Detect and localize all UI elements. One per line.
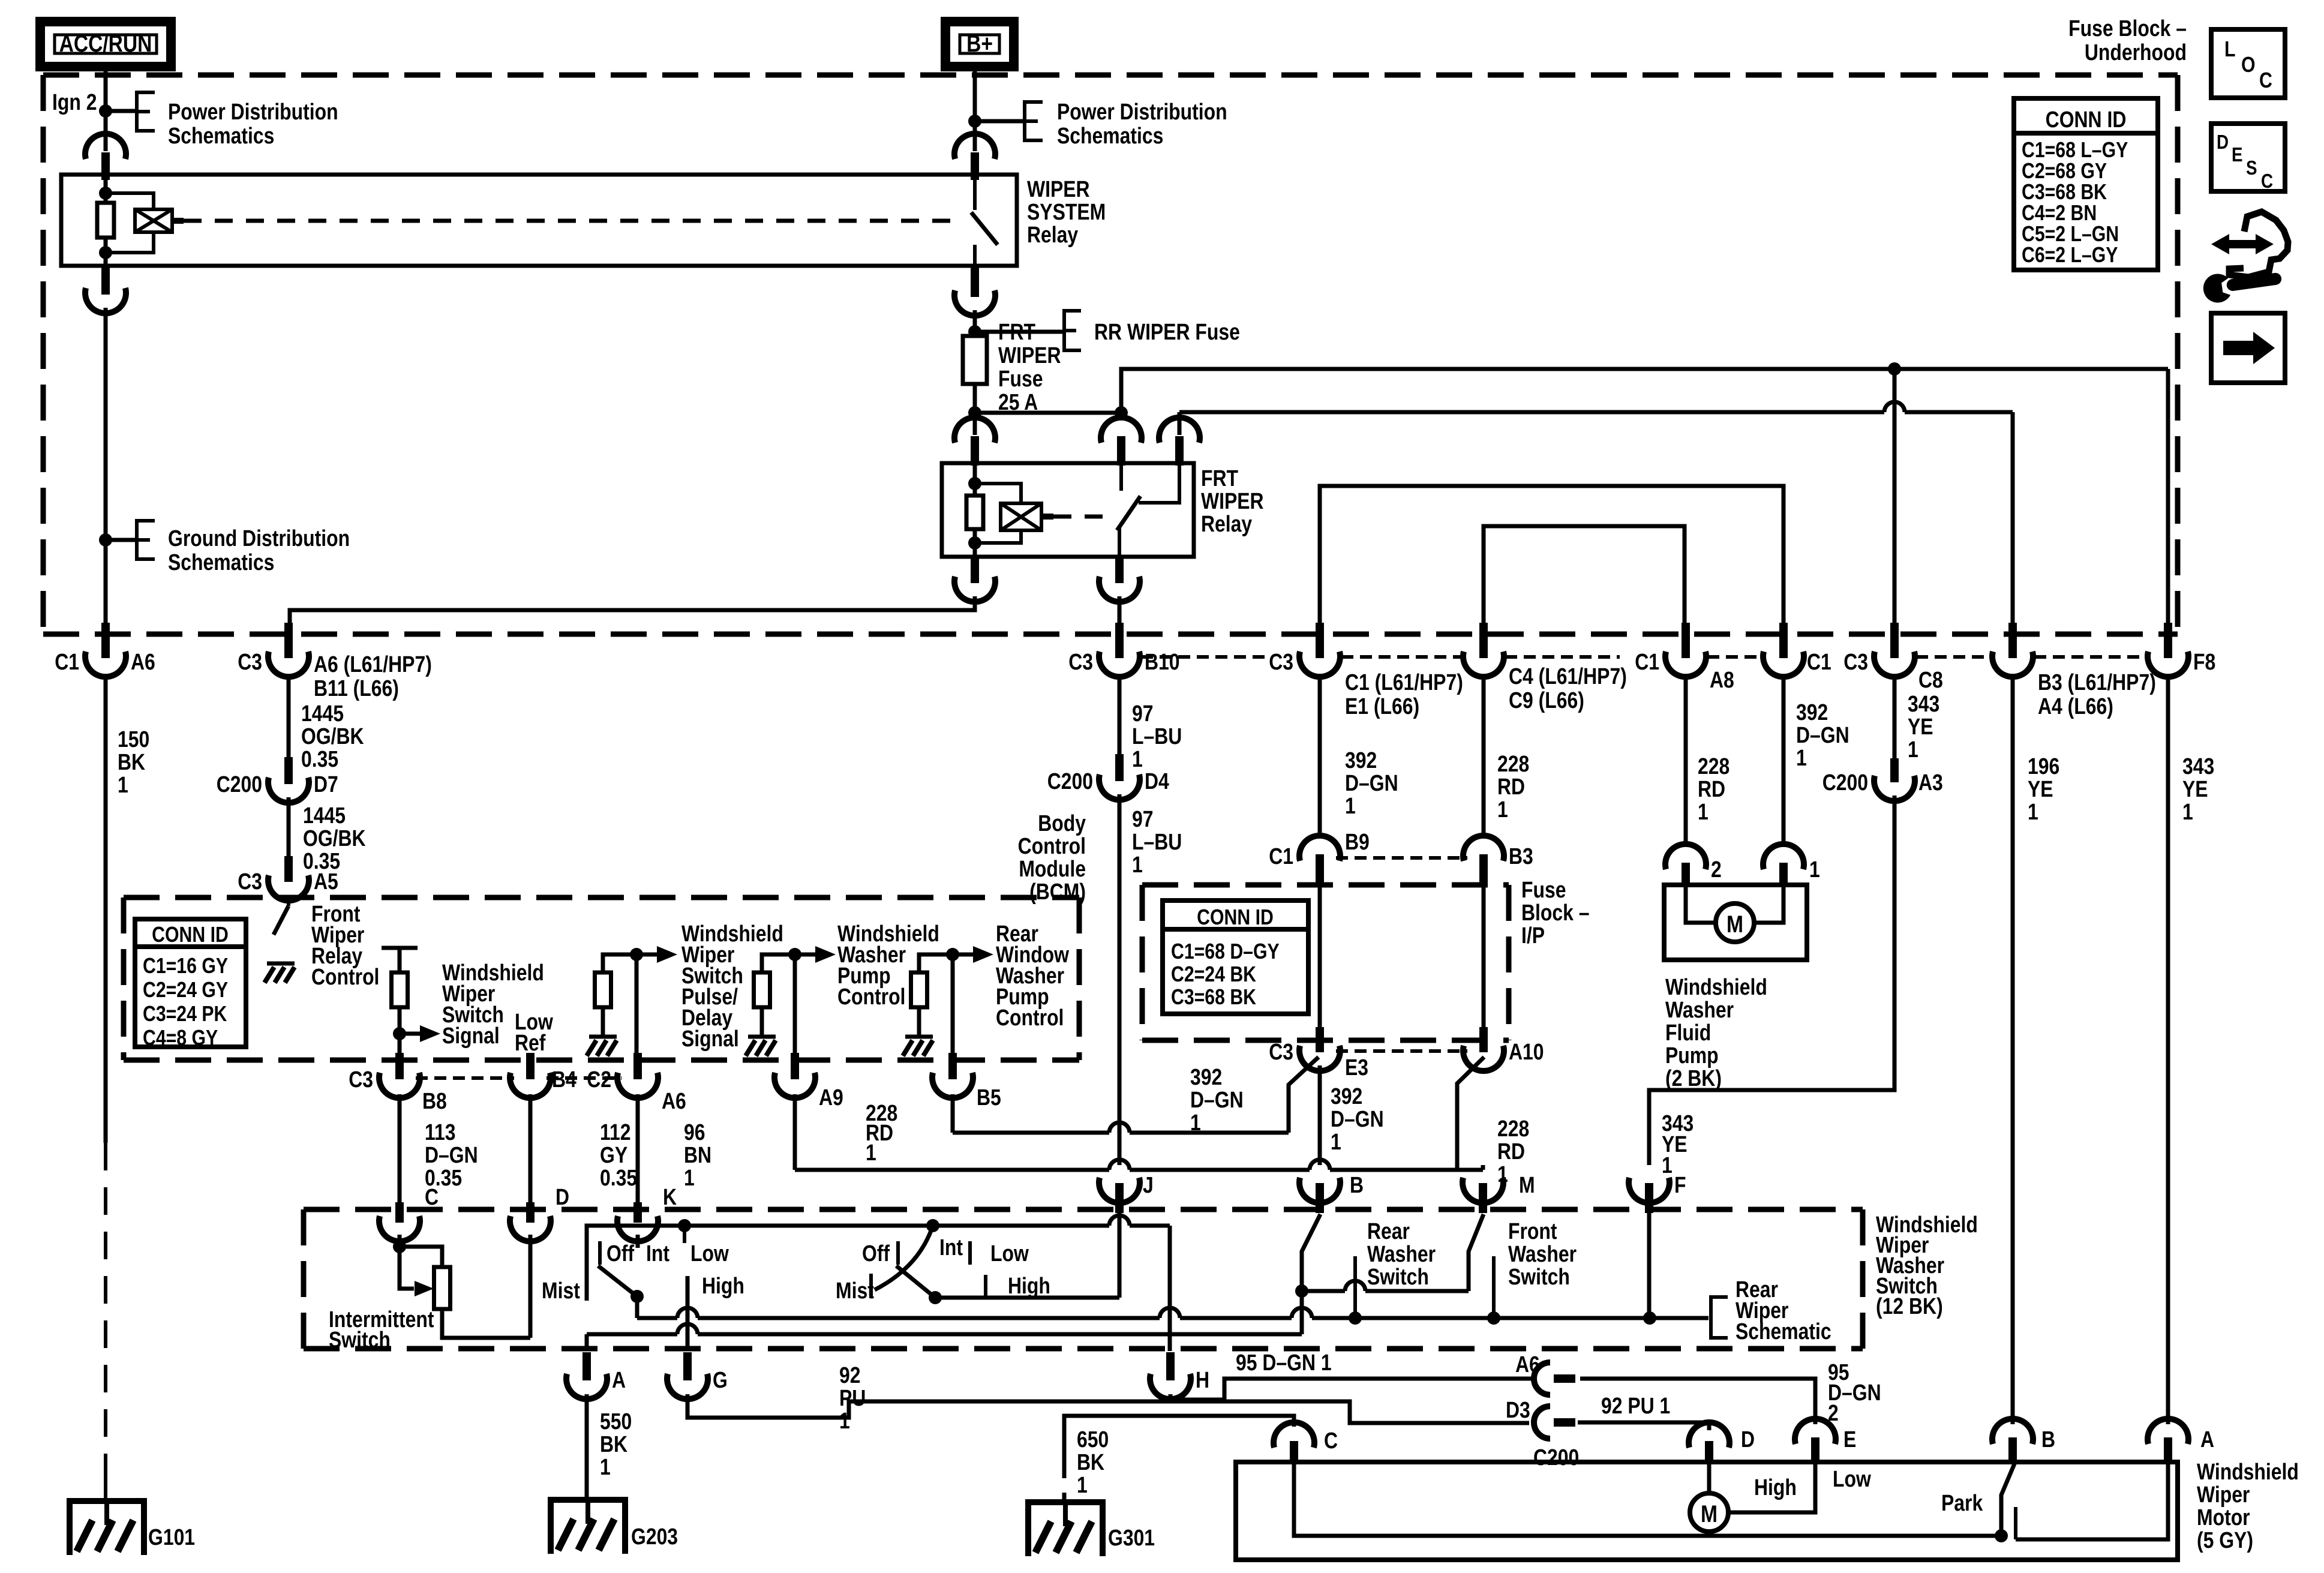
svg-text:C3: C3	[1068, 649, 1093, 674]
wire 97 L-BU lower to pin J	[1118, 794, 1122, 1165]
svg-text:A8: A8	[1710, 667, 1734, 692]
svg-text:Control: Control	[311, 964, 379, 989]
svg-text:D3: D3	[1506, 1397, 1530, 1422]
wire 95 D-GN 2 to motor E	[1580, 1379, 1815, 1424]
wire 392 D-GN B5 bus to E3	[951, 1094, 955, 1133]
svg-text:Relay: Relay	[1027, 222, 1079, 247]
svg-text:E3: E3	[1345, 1055, 1368, 1080]
ground G301	[1063, 1500, 1068, 1526]
svg-text:550: 550	[600, 1409, 632, 1434]
wire 650 BK 1 from motor C to G301	[1064, 1416, 1294, 1478]
connector pin Ign2 into relay	[101, 152, 110, 180]
svg-text:YE: YE	[2182, 776, 2208, 801]
svg-text:Int: Int	[646, 1241, 669, 1266]
svg-text:G101: G101	[148, 1524, 195, 1550]
svg-text:(5 GY): (5 GY)	[2197, 1527, 2253, 1553]
bus A pivot bus across switch	[637, 1316, 677, 1320]
windshield wiper washer switch dashed box	[304, 1207, 1863, 1212]
svg-text:C2: C2	[587, 1067, 611, 1092]
wire fuse output bus	[975, 411, 1121, 415]
wire F riser inside switch	[1647, 1213, 1652, 1318]
junction dot B+ node	[968, 115, 981, 128]
wire 550 BK 1 to G203	[585, 1394, 589, 1497]
junction dot relay coil bottom	[99, 246, 112, 259]
svg-text:C1 (L61/HP7): C1 (L61/HP7)	[1345, 670, 1463, 695]
svg-text:M: M	[1701, 1500, 1718, 1527]
pin A (wiper motor)	[2164, 1437, 2172, 1464]
junction dot rear washer contact on bus A	[1349, 1311, 1362, 1325]
svg-text:112: 112	[600, 1119, 630, 1145]
svg-text:L: L	[2224, 38, 2235, 62]
svg-text:C3: C3	[1269, 649, 1293, 674]
svg-text:WIPER: WIPER	[1027, 176, 1090, 202]
svg-text:D–GN: D–GN	[425, 1142, 478, 1167]
reference bracket Power Distribution Schematics (B+)	[1025, 102, 1043, 121]
svg-text:92: 92	[839, 1362, 861, 1388]
svg-text:1: 1	[684, 1165, 695, 1190]
wire 228 through fuse block I/P	[1482, 887, 1486, 1028]
svg-text:(2 BK): (2 BK)	[1665, 1065, 1722, 1091]
svg-text:A6: A6	[1515, 1352, 1540, 1377]
svg-text:C3: C3	[349, 1067, 373, 1092]
junction dot relay coil top	[99, 187, 112, 200]
svg-text:C200: C200	[1533, 1445, 1579, 1470]
svg-text:1: 1	[600, 1454, 611, 1479]
wire 228 RD C4 to fuse block I/P B3	[1482, 674, 1486, 837]
svg-text:(12 BK): (12 BK)	[1876, 1293, 1943, 1319]
connector C200/A3	[1890, 758, 1899, 782]
rear washer contact stub	[1353, 1256, 1357, 1318]
pin C2/A6	[633, 1053, 642, 1079]
svg-text:C200: C200	[1822, 770, 1868, 795]
svg-text:Control: Control	[837, 984, 905, 1009]
pin E (wiper motor)	[1811, 1437, 1819, 1464]
wire E3 to B (392 D-GN)	[1318, 1065, 1322, 1165]
svg-text:G203: G203	[631, 1524, 678, 1549]
junction dot Low contact	[678, 1219, 691, 1232]
svg-text:A4 (L66): A4 (L66)	[2038, 694, 2113, 719]
svg-text:BK: BK	[600, 1431, 627, 1457]
pin A10	[1479, 1027, 1488, 1052]
svg-text:B8: B8	[422, 1088, 447, 1113]
svg-text:Windshield: Windshield	[1665, 974, 1767, 999]
svg-text:C3: C3	[1269, 1039, 1293, 1064]
svg-text:D: D	[1741, 1427, 1755, 1452]
svg-text:A10: A10	[1509, 1039, 1544, 1064]
svg-text:YE: YE	[1908, 714, 1933, 739]
svg-text:Fluid: Fluid	[1665, 1020, 1711, 1045]
fine dotted connector comb row 1	[1141, 655, 1268, 659]
pin B5	[948, 1053, 957, 1079]
svg-text:C8: C8	[1918, 667, 1943, 692]
svg-text:C1: C1	[1807, 649, 1831, 674]
svg-text:Washer: Washer	[1508, 1241, 1577, 1266]
svg-text:C4=8 GY: C4=8 GY	[143, 1026, 218, 1050]
wire 97 L-BU from relay switch	[1118, 596, 1122, 624]
inline connector C200 pin A6	[1534, 1362, 1550, 1395]
wire 392 D-GN to washer pump pin 1	[1782, 674, 1786, 845]
svg-text:Control: Control	[996, 1005, 1064, 1030]
svg-text:Module: Module	[1019, 856, 1086, 881]
front wiper relay control switch inside BCM	[287, 895, 290, 906]
pin below relay switch output	[971, 266, 979, 297]
svg-text:Schematic: Schematic	[1736, 1319, 1831, 1344]
svg-text:L–BU: L–BU	[1132, 829, 1182, 854]
wire 112 GY 0.35 (B4 to D)	[529, 1094, 533, 1201]
pin into FRT wiper relay (switch output)	[1175, 436, 1184, 466]
wire 92 PU 1 to motor D	[1578, 1422, 1709, 1430]
svg-text:392: 392	[1190, 1064, 1222, 1089]
pin F (wiper switch)	[1629, 1178, 1670, 1203]
CONN ID table (fuse block I/P)	[1163, 900, 1308, 1014]
svg-text:BK: BK	[118, 749, 145, 775]
pin B3(L61-HP7) A4(L66)	[2008, 623, 2017, 658]
wire 95 D-GN 1 from H to connector A6	[1170, 1379, 1533, 1400]
junction dot FRT wiper relay feed	[1115, 406, 1128, 419]
motor ground wire inside box	[1294, 1464, 1997, 1536]
off stub switch 2	[896, 1241, 900, 1265]
svg-text:343: 343	[1908, 691, 1939, 716]
power feed box ACC/RUN	[40, 22, 171, 67]
svg-text:228: 228	[1497, 1116, 1529, 1141]
svg-text:B3: B3	[1509, 843, 1533, 869]
icon box arrow right	[2211, 313, 2285, 383]
svg-text:1: 1	[1908, 737, 1918, 762]
svg-text:C4 (L61/HP7): C4 (L61/HP7)	[1509, 664, 1627, 689]
svg-text:0.35: 0.35	[600, 1165, 637, 1190]
reference bracket Ground Distribution Schematics	[137, 521, 155, 540]
relay switch (wiper system relay)	[973, 175, 977, 210]
svg-text:1: 1	[1331, 1129, 1341, 1154]
svg-text:1: 1	[1497, 797, 1508, 822]
svg-text:Windshield: Windshield	[2197, 1459, 2299, 1484]
svg-text:C1: C1	[1635, 649, 1659, 674]
svg-text:196: 196	[2028, 754, 2059, 779]
svg-text:Mist: Mist	[836, 1278, 874, 1303]
svg-text:A9: A9	[819, 1085, 843, 1110]
pin C3/E3	[1316, 1027, 1324, 1052]
svg-text:A6 (L61/HP7): A6 (L61/HP7)	[314, 652, 432, 677]
junction dot rear washer common	[1295, 1284, 1308, 1298]
svg-text:Schematics: Schematics	[168, 123, 274, 148]
junction dot front washer contact on bus A	[1487, 1311, 1500, 1325]
wiper switch 1 Mist stub and Low feed line	[587, 1226, 684, 1301]
svg-text:C200: C200	[217, 772, 262, 797]
icon box DESC	[2211, 124, 2285, 191]
junction dot ground distribution node	[99, 533, 112, 547]
svg-text:Int: Int	[939, 1235, 963, 1260]
svg-text:392: 392	[1345, 748, 1377, 773]
motor M (wiper motor)	[1707, 1464, 1712, 1493]
svg-text:Fuse: Fuse	[998, 366, 1043, 391]
svg-text:392: 392	[1796, 700, 1828, 725]
relay switch (FRT wiper relay)	[1119, 463, 1123, 491]
svg-text:Low: Low	[1833, 1466, 1871, 1491]
junction dot switch 1 pivot	[630, 1290, 644, 1303]
wire 392 D-GN C3 to fuse block I/P B9... wait C1/B9	[1318, 674, 1322, 837]
washer pump motor M	[1686, 887, 1716, 923]
svg-text:High: High	[702, 1273, 744, 1298]
svg-text:1: 1	[866, 1140, 876, 1165]
connector pin B+ into relay	[971, 152, 979, 180]
reference bracket RR WIPER Fuse	[975, 330, 1063, 334]
connector C200/D7	[284, 757, 293, 784]
FRT relay coil branch wire	[973, 463, 977, 496]
svg-text:Ref: Ref	[515, 1030, 546, 1055]
pin M (wiper switch)	[1463, 1178, 1503, 1203]
svg-text:Schematics: Schematics	[168, 550, 274, 575]
bus B low return across switch	[585, 1334, 589, 1351]
svg-text:RD: RD	[1698, 776, 1725, 801]
svg-text:B10: B10	[1145, 649, 1180, 674]
wire B+ down to wiper system relay	[973, 67, 977, 151]
pin C1/A6 (150 BK)	[101, 623, 110, 658]
pin C1/B9	[1316, 854, 1324, 887]
svg-text:Washer: Washer	[1367, 1241, 1436, 1266]
svg-text:G: G	[713, 1367, 728, 1392]
switch 1 blade	[598, 1266, 637, 1296]
svg-text:Relay: Relay	[1201, 511, 1253, 536]
pin C (wiper motor)	[1290, 1441, 1298, 1464]
fine dotted comb fuse I/P top	[1336, 856, 1467, 860]
svg-text:Off: Off	[606, 1241, 634, 1266]
svg-text:SYSTEM: SYSTEM	[1027, 199, 1106, 224]
svg-text:Washer: Washer	[1665, 997, 1734, 1022]
svg-text:B5: B5	[977, 1085, 1001, 1110]
fuse block - underhood dashed enclosure	[43, 73, 2178, 78]
svg-text:F: F	[1674, 1172, 1686, 1197]
svg-text:D: D	[2217, 131, 2229, 154]
junction dot Int contact switch 2	[926, 1219, 939, 1232]
front washer switch blade	[1469, 1214, 1484, 1291]
front washer contact stub	[1492, 1256, 1496, 1318]
wire to relay coil	[106, 193, 154, 211]
svg-text:FRT: FRT	[1201, 466, 1239, 491]
wire to FRT relay coil	[975, 484, 1021, 505]
svg-text:Body: Body	[1038, 810, 1086, 836]
pin C (wiper switch)	[398, 1201, 402, 1203]
svg-text:O: O	[2241, 53, 2256, 77]
svg-text:C: C	[425, 1184, 439, 1209]
pin below relay coil return	[101, 266, 110, 295]
pin below FRT relay switch	[1115, 557, 1124, 583]
relay control dashed line (FRT wiper relay)	[1053, 515, 1109, 519]
off contact stub (switch 1)	[598, 1241, 602, 1265]
svg-text:96: 96	[684, 1119, 705, 1145]
svg-text:228: 228	[1497, 751, 1529, 776]
svg-text:D–GN: D–GN	[1345, 770, 1398, 795]
pin D (wiper switch)	[529, 1201, 533, 1203]
svg-text:97: 97	[1132, 806, 1154, 831]
svg-text:A6: A6	[131, 649, 155, 674]
BCM driver windshield wiper switch pulse/delay signal	[603, 954, 636, 972]
pin G (wiper switch bottom)	[683, 1352, 692, 1380]
svg-text:OG/BK: OG/BK	[301, 724, 364, 749]
wire FRT relay coil return to front wiper relay control pin	[290, 596, 975, 623]
svg-text:343: 343	[2182, 754, 2214, 779]
svg-text:228: 228	[1698, 754, 1730, 779]
svg-text:Off: Off	[862, 1241, 890, 1266]
svg-text:B3 (L61/HP7): B3 (L61/HP7)	[2038, 670, 2156, 695]
svg-text:Switch: Switch	[1508, 1264, 1570, 1289]
junction dot F riser on bus A	[1643, 1311, 1656, 1325]
pin C4(L61-HP7) C9(L66)	[1479, 623, 1488, 658]
svg-text:E1 (L66): E1 (L66)	[1345, 694, 1419, 719]
pin C3/B8	[395, 1053, 404, 1079]
wire relay output to FRT WIPER fuse	[973, 310, 977, 337]
pin F8	[2164, 623, 2172, 658]
svg-text:113: 113	[425, 1119, 455, 1145]
svg-text:C1=16 GY: C1=16 GY	[143, 954, 228, 978]
wire 228 RD to washer pump pin 2	[1684, 674, 1688, 845]
svg-text:E: E	[1843, 1427, 1856, 1452]
junction dot RR WIPER fuse tap	[968, 325, 981, 338]
low stub switch 2	[968, 1241, 972, 1265]
svg-text:1: 1	[1132, 746, 1143, 772]
svg-text:Schematics: Schematics	[1057, 123, 1163, 148]
svg-text:M: M	[1519, 1172, 1535, 1197]
svg-text:Power Distribution: Power Distribution	[1057, 99, 1227, 124]
wire ACC/RUN to wiper system relay	[104, 67, 108, 151]
svg-text:Front: Front	[1508, 1218, 1557, 1244]
junction dot switch 2 pivot	[929, 1291, 942, 1304]
svg-text:D–GN: D–GN	[1796, 722, 1849, 748]
svg-text:D: D	[556, 1184, 569, 1209]
wire 343 YE C8 to C200/A3	[1893, 674, 1897, 760]
washer pump box	[1664, 885, 1807, 960]
relay coil (wiper system relay)	[135, 209, 172, 232]
svg-text:B+: B+	[966, 30, 993, 56]
svg-text:CONN ID: CONN ID	[2046, 107, 2127, 132]
svg-text:S: S	[2246, 157, 2257, 179]
fuse block I/P dashed box	[1142, 882, 1509, 888]
svg-text:C3=24 PK: C3=24 PK	[143, 1002, 227, 1026]
wiper switch 2 pulse blade curve	[875, 1226, 933, 1290]
svg-text:C9 (L66): C9 (L66)	[1509, 688, 1584, 713]
relay control dashed line (wiper system relay)	[184, 219, 957, 223]
wire H riser from low line	[1168, 1226, 1172, 1351]
svg-text:E: E	[2232, 144, 2242, 166]
svg-text:C2=24 BK: C2=24 BK	[1171, 963, 1256, 987]
svg-text:WIPER: WIPER	[998, 343, 1061, 368]
wiper system relay coil branch wire	[104, 175, 108, 204]
svg-text:J: J	[1143, 1172, 1154, 1197]
fine dotted comb fuse I/P bottom	[1336, 1049, 1467, 1053]
pin 2 (washer pump)	[1682, 863, 1690, 887]
switch 1 pivot to bus A	[635, 1296, 639, 1318]
svg-text:C: C	[2259, 69, 2272, 93]
svg-text:C1=68 D–GY: C1=68 D–GY	[1171, 940, 1280, 964]
svg-text:YE: YE	[2028, 776, 2053, 801]
svg-text:BK: BK	[1077, 1449, 1104, 1475]
BCM driver windshield washer pump control	[762, 954, 795, 972]
icon double arrow	[2211, 234, 2274, 254]
switch 2 blade	[896, 1266, 935, 1298]
svg-text:RD: RD	[1497, 774, 1525, 799]
pin below FRT relay coil	[971, 557, 979, 583]
pin C3/C1(L61-HP7) E1(L66)	[1316, 623, 1324, 658]
svg-text:C6=2 L–GY: C6=2 L–GY	[2022, 244, 2118, 268]
icon wrench	[2202, 265, 2284, 305]
svg-text:C200: C200	[1047, 769, 1093, 794]
wire 92 PU 1 from G to D3	[687, 1394, 1529, 1423]
svg-text:C3: C3	[238, 869, 262, 894]
svg-text:Power Distribution: Power Distribution	[168, 99, 338, 124]
junction dot park blade common	[1995, 1529, 2008, 1542]
junction dot FRT relay coil top	[968, 477, 981, 490]
svg-text:B: B	[2041, 1427, 2055, 1452]
pin C3/A6(L61-HP7) B11(L66)	[284, 623, 293, 658]
icon car outline	[2229, 212, 2288, 277]
svg-text:C1: C1	[55, 649, 79, 674]
svg-text:Underhood: Underhood	[2085, 40, 2187, 65]
rear washer common riser to bus B	[1300, 1291, 1304, 1334]
pin C1 (washer pump feed)	[1779, 623, 1788, 658]
svg-text:High: High	[1754, 1475, 1797, 1500]
pin B (wiper switch)	[1299, 1178, 1340, 1203]
pin C1/A8	[1682, 623, 1690, 658]
svg-text:1: 1	[1662, 1152, 1673, 1178]
svg-text:97: 97	[1132, 701, 1154, 726]
junction dot FRT relay coil bottom	[968, 536, 981, 550]
svg-text:Signal: Signal	[442, 1023, 500, 1048]
relay box FRT WIPER Relay	[942, 463, 1194, 557]
svg-text:L–BU: L–BU	[1132, 724, 1182, 749]
svg-text:GY: GY	[600, 1142, 627, 1167]
svg-text:CONN ID: CONN ID	[1197, 906, 1274, 930]
pin B3 (fuse I/P)	[1479, 854, 1488, 887]
wire J riser	[1118, 1213, 1122, 1298]
svg-text:650: 650	[1077, 1427, 1109, 1452]
pin B4	[526, 1053, 535, 1079]
park contact to motor A return	[2016, 1464, 2168, 1539]
svg-text:K: K	[663, 1184, 677, 1209]
wiper motor box	[1236, 1462, 2178, 1560]
pin C3/C8	[1890, 623, 1899, 658]
svg-text:1: 1	[118, 772, 128, 797]
wire 343 YE down to pin F	[1649, 795, 1894, 1165]
low contact stub (switch 1)	[683, 1226, 686, 1243]
svg-text:150: 150	[118, 727, 149, 752]
svg-text:92 PU 1: 92 PU 1	[1601, 1393, 1670, 1418]
svg-text:1445: 1445	[303, 803, 346, 828]
svg-text:RD: RD	[1497, 1139, 1525, 1164]
pin A (wiper switch bottom)	[582, 1352, 591, 1380]
svg-text:1: 1	[1809, 857, 1820, 882]
bridge wire C3 to C1 inside fuse block	[1320, 486, 1783, 623]
CONN ID table (fuse block underhood)	[2014, 98, 2158, 270]
svg-text:C3=68 BK: C3=68 BK	[1171, 986, 1256, 1010]
power feed box B+	[945, 22, 1014, 67]
svg-text:B9: B9	[1345, 829, 1370, 854]
switch 2 pivot line to J riser	[935, 1296, 1119, 1300]
svg-text:Motor: Motor	[2197, 1505, 2250, 1530]
washer commons tie line with hop at rear contact	[1302, 1289, 1345, 1293]
fine dotted connector comb row 2	[416, 1076, 514, 1080]
BCM driver rear window washer pump control	[919, 954, 953, 972]
svg-text:Fuse Block –: Fuse Block –	[2068, 16, 2187, 41]
resistor inside FRT wiper relay	[966, 496, 983, 529]
svg-text:2: 2	[1711, 857, 1722, 882]
svg-text:Switch: Switch	[1367, 1264, 1429, 1289]
svg-text:BN: BN	[684, 1142, 711, 1167]
pin H (wiper switch bottom)	[1166, 1352, 1175, 1380]
wire 1445 OG/BK lower	[287, 797, 291, 858]
svg-text:C: C	[1324, 1428, 1338, 1453]
svg-text:M: M	[1727, 911, 1743, 937]
junction dot 343 YE tap	[1888, 362, 1901, 376]
svg-text:1445: 1445	[301, 701, 344, 726]
